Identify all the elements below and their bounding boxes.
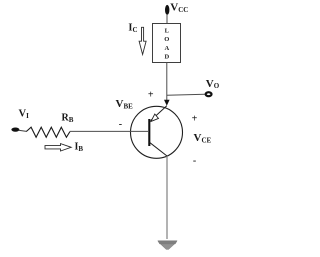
svg-text:+: +: [192, 113, 198, 124]
svg-text:VO: VO: [206, 78, 220, 90]
svg-text:VCC: VCC: [170, 2, 188, 15]
svg-text:IB: IB: [75, 142, 84, 154]
wire resistor to base: [70, 130, 149, 132]
svg-text:-: -: [119, 119, 122, 130]
transistor Q1 circle: [131, 106, 183, 158]
resistor RB: [26, 127, 70, 137]
arrowhead into collector: [164, 100, 170, 106]
svg-text:-: -: [193, 156, 196, 167]
base bar: [148, 119, 150, 146]
ground symbol: [158, 241, 177, 250]
svg-text:A: A: [164, 45, 169, 52]
IC hollow arrow: [139, 27, 146, 54]
wire VCC to load: [166, 14, 168, 24]
collector lead: [151, 106, 167, 121]
label LOAD: [164, 27, 169, 60]
wire VI to resistor: [19, 130, 27, 131]
load box: [153, 24, 181, 63]
VI terminal: [11, 128, 19, 132]
emitter ground wire: [166, 156, 168, 239]
svg-text:VBE: VBE: [116, 98, 134, 111]
wire load to collector node: [166, 63, 168, 101]
svg-text:VI: VI: [19, 109, 30, 121]
svg-text:RB: RB: [62, 113, 74, 125]
IB hollow arrow: [45, 144, 71, 151]
svg-text:+: +: [148, 89, 154, 100]
wire node to VO: [167, 94, 205, 95]
svg-text:IC: IC: [128, 23, 137, 35]
emitter lead: [149, 142, 167, 156]
svg-text:O: O: [164, 36, 169, 43]
svg-text:VCE: VCE: [194, 132, 212, 145]
svg-text:L: L: [165, 27, 170, 34]
VO terminal: [206, 92, 212, 96]
VCC terminal: [165, 5, 169, 15]
svg-text:D: D: [164, 54, 169, 61]
collector open arrowhead: [151, 114, 159, 121]
